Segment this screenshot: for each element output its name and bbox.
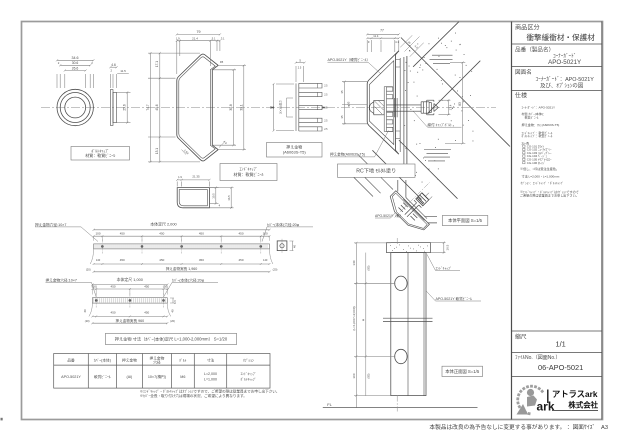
label box: plan view: [442, 216, 488, 226]
detail left dim chain: [342, 81, 367, 83]
svg-text:21.35: 21.35: [192, 174, 200, 178]
45deg mortar dim top-left: [400, 35, 423, 56]
svg-text:30.6: 30.6: [72, 61, 79, 65]
label box: RC substrate: [338, 164, 416, 177]
svg-text:450: 450: [199, 258, 204, 262]
svg-text:ｶﾊﾞｰ(本体)穴径:20φ: ｶﾊﾞｰ(本体)穴径:20φ: [267, 222, 300, 227]
svg-text:40: 40: [293, 245, 297, 248]
svg-text:L=1,000: L=1,000: [204, 378, 217, 382]
svg-text:M6: M6: [180, 375, 185, 379]
svg-text:40: 40: [171, 309, 175, 312]
svg-text:79: 79: [197, 30, 201, 34]
svg-text:APO-5021Y（軟）: APO-5021Y（軟）: [375, 213, 403, 218]
svg-text:21.4: 21.4: [192, 36, 198, 40]
bolt cap height dimension 25.6: [117, 91, 131, 93]
svg-text:ﾌｧｲﾙNo.（図面No.）: ﾌｧｲﾙNo.（図面No.）: [515, 355, 561, 361]
svg-text:450: 450: [144, 284, 149, 288]
svg-text:1.9: 1.9: [178, 175, 182, 179]
wall face and mortar lines: [399, 58, 401, 152]
label box: clamp fitting: [267, 143, 323, 158]
svg-text:(50): (50): [92, 284, 97, 288]
svg-text:本体正面図 S=1/5: 本体正面図 S=1/5: [445, 368, 480, 375]
svg-text:(20): (20): [170, 319, 175, 323]
svg-text:74.7: 74.7: [146, 104, 150, 110]
svg-text:穴径: 穴径: [153, 360, 161, 365]
svg-text:ｴﾝﾄﾞｷｬｯﾌﾟ: ｴﾝﾄﾞｷｬｯﾌﾟ: [436, 265, 452, 270]
svg-text:1/1: 1/1: [556, 340, 566, 349]
svg-text:※ｴﾝﾄﾞｷｬｯﾌﾟ・ﾎﾞﾙﾄｷｬｯﾌﾟはｵﾌﾟｼｮﾝですの: ※ｴﾝﾄﾞｷｬｯﾌﾟ・ﾎﾞﾙﾄｷｬｯﾌﾟはｵﾌﾟｼｮﾝですので、ご希望の際は従業…: [140, 389, 280, 394]
bolt cap diameter dimensions: [56, 74, 58, 88]
svg-text:30.8: 30.8: [229, 104, 233, 110]
svg-text:押え金物実長 1,960: 押え金物実長 1,960: [166, 266, 198, 271]
wall vertical dim 83: [450, 62, 465, 64]
parts table: [54, 354, 270, 389]
plan view 45deg hatch strokes inside guard: [399, 203, 418, 221]
svg-text:40: 40: [83, 309, 87, 312]
svg-text:※ｶﾊﾞｰ全長・取り付け穴は現場の状況、ご希望により異なりま: ※ｶﾊﾞｰ全長・取り付け穴は現場の状況、ご希望により異なります。: [140, 393, 247, 398]
svg-text:(20): (20): [273, 268, 278, 272]
svg-text:(20): (20): [85, 319, 90, 323]
svg-text:ｶﾊﾞｰ(本体)穴径:20φ: ｶﾊﾞｰ(本体)穴径:20φ: [172, 277, 205, 282]
svg-text:本体定尺 1,000: 本体定尺 1,000: [117, 277, 144, 282]
svg-text:4.1: 4.1: [395, 40, 399, 44]
view: bolt cap side profile: [110, 90, 113, 126]
clamp bar 1000: overall dim 1000: [92, 284, 167, 286]
svg-text:衝撃緩衝材・保護材: 衝撃緩衝材・保護材: [526, 32, 595, 42]
clamp bar 1000: top dim chain: [92, 288, 167, 290]
svg-text:CG-106 ｵﾚﾝｼﾞ: CG-106 ｵﾚﾝｼﾞ: [527, 161, 546, 165]
elevation: end cap top: [387, 243, 431, 253]
svg-text:100: 100: [263, 232, 268, 236]
svg-text:ｵﾌﾟｼｮﾝ：ｴﾝﾄﾞｷｬｯﾌﾟ・ﾎﾞﾙﾄｷｬｯﾌﾟ: ｵﾌﾟｼｮﾝ：ｴﾝﾄﾞｷｬｯﾌﾟ・ﾎﾞﾙﾄｷｬｯﾌﾟ: [521, 180, 564, 185]
svg-text:ｵﾌﾟｼｮﾝ: ｵﾌﾟｼｮﾝ: [243, 357, 254, 362]
svg-text:図面名: 図面名: [515, 68, 532, 76]
elevation break lines: [383, 317, 433, 319]
svg-text:450: 450: [238, 232, 243, 236]
svg-text:450: 450: [120, 232, 125, 236]
clamp bar 2000: body: [94, 244, 270, 249]
label box: bolt cap: [71, 147, 130, 161]
svg-text:11.4: 11.4: [373, 34, 379, 38]
svg-text:材質：軟質ﾋﾞﾆｰﾙ: 材質：軟質ﾋﾞﾆｰﾙ: [85, 152, 115, 158]
svg-text:2(×18)深さ: 2(×18)深さ: [279, 100, 283, 114]
plan view: guard on corner: [390, 180, 437, 230]
45deg break hatch bottom-left: [358, 155, 393, 190]
svg-text:450: 450: [199, 232, 204, 236]
svg-text:450: 450: [111, 284, 116, 288]
label box: elevation: [442, 366, 483, 376]
svg-text:押え金物(A6063S-T5): 押え金物(A6063S-T5): [330, 152, 365, 157]
svg-text:5.1: 5.1: [212, 36, 216, 40]
svg-text:450: 450: [144, 311, 149, 315]
svg-text:ﾎﾞﾙﾄｷｬｯﾌﾟ: ﾎﾞﾙﾄｷｬｯﾌﾟ: [240, 377, 256, 382]
svg-text:140: 140: [263, 258, 268, 262]
svg-text:6.5: 6.5: [173, 300, 177, 304]
svg-text:締付 ｷｬｯﾌﾟﾎﾞﾙﾄ: 締付 ｷｬｯﾌﾟﾎﾞﾙﾄ: [428, 122, 453, 127]
label box: end cap: [220, 164, 277, 181]
svg-text:13.1: 13.1: [155, 148, 159, 154]
svg-text:2.5: 2.5: [298, 66, 302, 69]
concrete speckle dots: [440, 42, 443, 45]
svg-text:材質：軟質ﾋﾞﾆｰﾙ: 材質：軟質ﾋﾞﾆｰﾙ: [234, 171, 264, 177]
svg-text:押え金物: 押え金物: [122, 357, 137, 362]
svg-text:450: 450: [111, 311, 116, 315]
bolt cap side dimensions: [109, 74, 111, 88]
svg-text:押え金物 寸法（ｶﾊﾞｰ(本体)定尺 L=1,000-2,0: 押え金物 寸法（ｶﾊﾞｰ(本体)定尺 L=1,000-2,000mm） S=1/…: [115, 335, 228, 342]
guard mounting flanges: [396, 60, 401, 68]
plan bolt centerline 45deg: [395, 182, 431, 218]
svg-text:83: 83: [458, 102, 462, 106]
company logo: atlas ark: [516, 385, 598, 415]
svg-text:軟質ﾋﾞﾆｰﾙ: 軟質ﾋﾞﾆｰﾙ: [94, 374, 111, 379]
svg-text:品番: 品番: [67, 357, 75, 362]
svg-text:本体平面図 S=1/5: 本体平面図 S=1/5: [448, 217, 483, 224]
view: clamp extrusion cross-section: [296, 83, 322, 131]
elevation body: [391, 253, 426, 396]
svg-text:押え金物：ｱﾙﾐ(A6063S-T5): 押え金物：ｱﾙﾐ(A6063S-T5): [522, 122, 560, 127]
clamp bar 2000: end section view: [277, 241, 287, 251]
svg-text:L=2,000: L=2,000: [204, 372, 217, 376]
svg-text:φ35: φ35: [347, 101, 351, 106]
svg-text:450: 450: [238, 258, 243, 262]
svg-text:軟質ﾋﾞﾆｰﾙ: 軟質ﾋﾞﾆｰﾙ: [522, 115, 539, 120]
centerline arrowheads at clamp extrusion: [270, 106, 274, 108]
svg-text:品番（製品名）: 品番（製品名）: [515, 46, 554, 54]
svg-text:34.6: 34.6: [72, 56, 79, 60]
clamp bar 2000: top dim chain: [94, 235, 270, 237]
svg-text:本体定尺 2,000: 本体定尺 2,000: [150, 221, 177, 226]
wall corner diagonal boundaries: [401, 38, 510, 147]
clamp bar 1000: bottom dims: [92, 315, 167, 317]
title block: [511, 22, 513, 420]
svg-text:本製品は改良の為予告なしに変更する事があります。 ：図面ｻｲ: 本製品は改良の為予告なしに変更する事があります。 ：図面ｻｲｽﾞ A3: [429, 423, 608, 431]
svg-text:ｺｰﾅｰｶﾞｰﾄﾞ：APO-5021Y: ｺｰﾅｰｶﾞｰﾄﾞ：APO-5021Y: [535, 76, 594, 83]
svg-text:ご希望の際は従業員までお申し出下さい。: ご希望の際は従業員までお申し出下さい。: [520, 193, 579, 198]
svg-text:1.9: 1.9: [176, 36, 180, 40]
svg-text:06-APO-5021: 06-APO-5021: [538, 363, 583, 372]
svg-text:35: 35: [340, 115, 344, 119]
svg-text:株式会社: 株式会社: [568, 400, 598, 409]
svg-text:RC下地 ﾓﾙﾀﾙ塗り: RC下地 ﾓﾙﾀﾙ塗り: [356, 166, 396, 174]
svg-text:ｺｰﾅｰｶﾞｰﾄﾞ：APO-5021Y: ｺｰﾅｰｶﾞｰﾄﾞ：APO-5021Y: [522, 105, 556, 109]
svg-text:(50): (50): [163, 284, 168, 288]
elevation bolt holes: [395, 276, 407, 290]
svg-text:押え金物実長 960: 押え金物実長 960: [116, 318, 145, 323]
svg-text:ｴﾝﾄﾞｷｬｯﾌﾟ: ｴﾝﾄﾞｷｬｯﾌﾟ: [240, 371, 256, 376]
scan speck bottom-left: [1, 418, 3, 421]
clamp bar 2000: bottom dims: [94, 263, 270, 265]
svg-text:(Al): (Al): [127, 375, 133, 379]
svg-text:4.6: 4.6: [111, 63, 116, 67]
svg-text:APO-5021Y 軟質ﾋﾞﾆｰﾙ: APO-5021Y 軟質ﾋﾞﾆｰﾙ: [436, 296, 472, 301]
clamp fitting inside detail (rotated comb): [384, 87, 393, 132]
end cap left dimension chain: [148, 52, 200, 54]
svg-text:25.6: 25.6: [123, 104, 127, 110]
svg-text:35: 35: [340, 90, 344, 94]
svg-text:140: 140: [96, 258, 101, 262]
svg-text:寸法: 寸法: [207, 357, 215, 362]
svg-text:(95): (95): [366, 265, 370, 270]
svg-text:ﾎﾞﾙﾄｷｬｯﾌﾟ：軟質ﾋﾞﾆｰﾙ: ﾎﾞﾙﾄｷｬｯﾌﾟ：軟質ﾋﾞﾆｰﾙ: [522, 133, 553, 138]
end cap right dimension chain: [213, 69, 236, 71]
bolt tip small dim 17.4: [439, 99, 451, 101]
clamp extrusion small top dim 5: [295, 66, 297, 82]
svg-text:寸法 L=2,000・L=1,000mm: 寸法 L=2,000・L=1,000mm: [522, 174, 560, 179]
svg-text:450: 450: [159, 232, 164, 236]
svg-text:45.6: 45.6: [155, 104, 159, 110]
svg-text:アトラスark: アトラスark: [552, 389, 598, 399]
svg-text:及び、ｵﾌﾟｼｮﾝの図: 及び、ｵﾌﾟｼｮﾝの図: [540, 82, 583, 90]
svg-text:ﾎﾞﾙﾄ: ﾎﾞﾙﾄ: [179, 358, 187, 362]
main horizontal centerline: [41, 107, 496, 109]
view: bolt cap front (ring): [57, 89, 93, 125]
svg-text:16.5: 16.5: [227, 195, 231, 201]
clamp extrusion dims: [276, 83, 294, 85]
svg-text:(95): (95): [366, 373, 370, 378]
svg-text:26.6: 26.6: [72, 66, 79, 70]
installation detail: guard profile section: [367, 51, 399, 154]
anchor bolt assembly: [370, 98, 439, 117]
svg-text:(L=1,000～2,000): (L=1,000～2,000): [352, 306, 356, 330]
svg-text:APO-5021Y: APO-5021Y: [61, 375, 81, 379]
svg-text:R5: R5: [220, 60, 224, 64]
svg-text:11.5: 11.5: [120, 69, 126, 73]
svg-text:※但し、○印は受注生産色。: ※但し、○印は受注生産色。: [520, 166, 559, 171]
svg-text:3.1: 3.1: [221, 36, 225, 40]
svg-text:450: 450: [120, 258, 125, 262]
svg-text:APO-5021Y: APO-5021Y: [548, 59, 581, 66]
svg-text:押え金物穴径:10×7: 押え金物穴径:10×7: [46, 277, 77, 282]
svg-text:16.5: 16.5: [445, 244, 449, 250]
svg-text:商品区分: 商品区分: [515, 24, 540, 32]
svg-text:77: 77: [380, 29, 384, 33]
view: end cap cross-section profile (peaked): [177, 54, 218, 161]
clamp bar 2000: overall dim 2000: [94, 229, 270, 231]
svg-text:ark: ark: [536, 400, 554, 414]
svg-text:17.4: 17.4: [449, 104, 453, 110]
corner detail dims: [176, 182, 178, 187]
svg-text:(20): (20): [86, 268, 91, 272]
label box: clamp bar dims: [106, 333, 237, 344]
svg-text:17.1: 17.1: [155, 61, 159, 67]
svg-text:押え金物穴径:10×7: 押え金物穴径:10×7: [35, 222, 66, 227]
view: end cap corner detail: [177, 188, 209, 208]
svg-text:10.5: 10.5: [211, 193, 215, 199]
svg-text:100: 100: [352, 373, 356, 378]
svg-text:39.1: 39.1: [239, 104, 243, 110]
svg-text:10×7(楕円): 10×7(楕円): [148, 374, 166, 379]
svg-text:(A6063S-T5): (A6063S-T5): [283, 150, 307, 155]
elevation cap height dim 16.5: [431, 242, 446, 244]
svg-text:仕様: 仕様: [515, 92, 527, 100]
elevation left dims: [354, 242, 391, 244]
clamp bar 1000: body: [92, 298, 167, 303]
svg-text:100: 100: [95, 232, 100, 236]
svg-text:FL: FL: [327, 402, 332, 407]
svg-text:ｴﾝﾄﾞｷｬｯﾌﾟ: ｴﾝﾄﾞｷｬｯﾌﾟ: [240, 166, 258, 172]
svg-text:450: 450: [159, 258, 164, 262]
detail top dimension 77: [366, 40, 368, 52]
svg-text:130: 130: [352, 260, 356, 265]
mortar hatch horizontal groups: [432, 54, 453, 56]
end cap top dimension 79: [176, 41, 178, 74]
plan view bolt at 45deg (into corner): [405, 193, 432, 217]
svg-text:縮尺: 縮尺: [515, 333, 527, 341]
svg-text:ｶﾊﾞｰ(本体): ｶﾊﾞｰ(本体): [94, 357, 111, 362]
svg-text:APO-5021Y（硬質ﾋﾞﾆｰﾙ）: APO-5021Y（硬質ﾋﾞﾆｰﾙ）: [328, 57, 371, 62]
